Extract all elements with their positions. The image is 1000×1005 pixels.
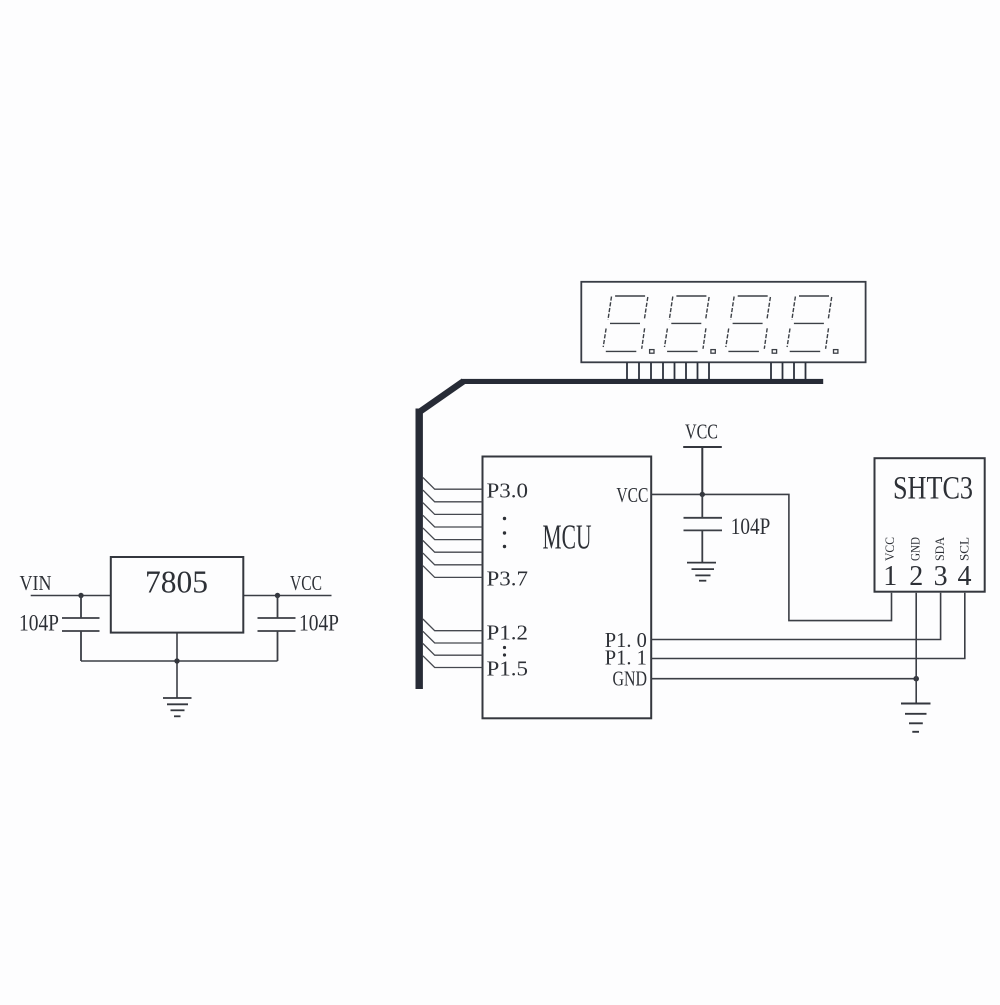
digit 2 of DS1	[665, 296, 716, 353]
svg-text:3: 3	[934, 561, 948, 592]
wire bottom ground bus of 7805 block	[81, 660, 278, 662]
digit 4 of DS1	[787, 296, 838, 353]
svg-text:VIN: VIN	[20, 571, 52, 595]
DS1 pins (left group of 8)	[627, 362, 709, 379]
MCU port P1.2..P1.5 pin wires	[423, 619, 483, 668]
svg-text:VCC: VCC	[685, 420, 718, 444]
svg-text:VCC: VCC	[616, 483, 648, 507]
svg-text:GND: GND	[908, 537, 923, 561]
ground G1 (7805)	[163, 698, 192, 716]
svg-text:SDA: SDA	[932, 536, 947, 561]
svg-text:SHTC3: SHTC3	[893, 470, 973, 506]
ellipsis dots P3 ports	[503, 517, 506, 548]
wire GND to SHTC3 pin2	[651, 678, 916, 680]
display module DS1 (4-digit 7-segment)	[581, 282, 865, 363]
svg-text:P3.0: P3.0	[487, 479, 529, 503]
node GND junction at pin2	[913, 676, 919, 682]
svg-text:104P: 104P	[19, 611, 59, 636]
node VCC/C3 junction	[700, 492, 705, 497]
wire VIN input	[31, 595, 111, 597]
sensor U3 SHTC3 box	[875, 458, 985, 592]
svg-text:GND: GND	[613, 667, 648, 691]
node VIN junction	[78, 593, 83, 598]
svg-text:SCL: SCL	[957, 537, 972, 561]
capacitor C2 104P output	[258, 596, 296, 662]
MCU U2 box	[483, 457, 652, 719]
node VCC junction	[275, 593, 280, 598]
digit 1 of DS1	[603, 296, 654, 353]
power VCC symbol	[683, 447, 722, 494]
capacitor C3 104P (MCU decoupling)	[684, 494, 723, 562]
wire MCU VCC to SHTC3 pin1	[651, 494, 891, 620]
wire P1.0 to SHTC3 pin3 (SDA)	[651, 593, 940, 640]
wire thick display bus (horizontal)	[461, 379, 823, 384]
svg-text:P3.7: P3.7	[487, 567, 529, 591]
MCU port P3.0..P3.7 pin wires	[423, 478, 483, 578]
svg-text:P1.2: P1.2	[487, 621, 529, 645]
wire P1.1 to SHTC3 pin4 (SCL)	[651, 593, 965, 659]
wire 7805 ground lead	[176, 633, 178, 698]
svg-text:1: 1	[883, 561, 897, 592]
svg-text:2: 2	[909, 561, 923, 592]
ellipsis dots P1 ports	[503, 646, 506, 657]
wire thick display bus (diagonal)	[419, 381, 464, 412]
svg-text:VCC: VCC	[882, 537, 897, 561]
svg-text:P1.5: P1.5	[487, 657, 529, 681]
wire SHTC3 pin2 to ground	[915, 593, 917, 704]
ground G2 (C3)	[687, 563, 716, 581]
svg-text:VCC: VCC	[290, 571, 322, 595]
svg-text:104P: 104P	[299, 611, 339, 636]
svg-text:MCU: MCU	[543, 518, 592, 557]
wire thick display bus (vertical)	[416, 409, 423, 690]
svg-text:4: 4	[958, 561, 972, 592]
regulator U1 7805 box	[111, 557, 244, 633]
DS1 pins (right group of 4)	[771, 362, 806, 379]
digit 3 of DS1	[726, 296, 777, 353]
wire VCC output of 7805	[243, 595, 331, 597]
node ground bus junction	[174, 658, 179, 663]
ground G3 (SHTC3)	[901, 704, 931, 732]
svg-text:7805: 7805	[145, 564, 208, 600]
svg-text:104P: 104P	[731, 514, 771, 539]
capacitor C1 104P input	[62, 596, 100, 662]
